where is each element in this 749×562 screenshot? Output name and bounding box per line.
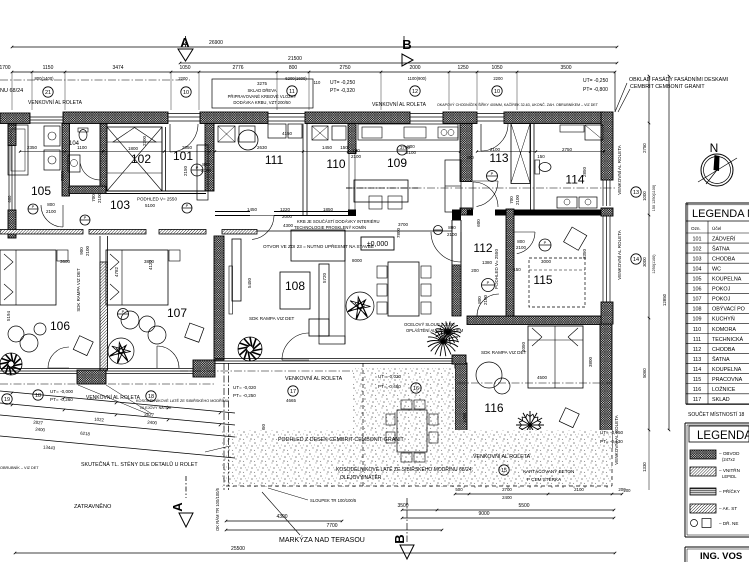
axis circles top [43,87,53,97]
svg-text:15: 15 [501,468,507,474]
svg-text:OBKLAD FASÁDY FASÁDNÍMI DESKAM: OBKLAD FASÁDY FASÁDNÍMI DESKAMI [629,76,728,83]
svg-text:KUCHYŇ: KUCHYŇ [712,316,735,323]
swatch drevo [691,520,698,527]
wall 105/104 [62,124,70,197]
kitchen counter 109 [358,124,458,140]
svg-text:7800: 7800 [396,227,401,238]
svg-text:3800: 3800 [588,356,593,367]
legend table rooms [685,203,687,404]
svg-text:200: 200 [466,155,474,160]
svg-text:10: 10 [494,89,500,95]
wall 109/113 [460,124,472,182]
speckle terrace concrete [353,368,455,430]
svg-text:14: 14 [633,257,639,263]
corridor walls [106,190,206,192]
svg-text:P: P [487,280,490,285]
svg-text:N: N [710,141,719,155]
svg-text:SKLAD: SKLAD [712,397,730,403]
svg-text:1050: 1050 [179,65,190,71]
svg-text:101: 101 [693,236,702,242]
svg-text:1150: 1150 [43,65,54,71]
svg-text:5194: 5194 [6,310,11,321]
svg-text:SOUČET MÍSTNOSTÍ 18: SOUČET MÍSTNOSTÍ 18 [688,411,745,418]
svg-text:5100: 5100 [145,203,156,208]
svg-text:3500: 3500 [560,65,571,71]
top wall seg4 [443,112,477,124]
svg-text:±0,000: ±0,000 [367,241,388,248]
svg-text:SLOUPEK TR 100/100/5: SLOUPEK TR 100/100/5 [310,498,357,503]
svg-text:PT= -0,800: PT= -0,800 [583,87,608,93]
svg-text:1700: 1700 [0,65,11,71]
svg-text:KOUPELNA: KOUPELNA [712,277,742,283]
svg-text:2750: 2750 [339,65,350,71]
svg-text:700: 700 [91,194,96,202]
bottom dims terrace [226,520,342,522]
svg-text:1050: 1050 [491,65,502,71]
nightstands [57,250,68,261]
shower 114 [560,125,584,132]
svg-text:4782: 4782 [114,266,119,277]
svg-text:150: 150 [340,145,348,150]
svg-text:VENKOVNÍ AL ROLETA: VENKOVNÍ AL ROLETA [285,375,343,382]
washer dryer 111 [218,126,235,142]
svg-text:12850: 12850 [662,293,667,306]
svg-text:108: 108 [693,307,702,313]
svg-text:SDK RAMPA VIZ DET: SDK RAMPA VIZ DET [481,350,527,355]
svg-text:UT= -0,020: UT= -0,020 [233,385,257,390]
svg-text:16: 16 [413,386,419,392]
svg-text:1300: 1300 [462,412,467,423]
svg-text:900: 900 [79,247,84,255]
svg-text:9000: 9000 [478,511,489,517]
svg-text:2000: 2000 [282,214,293,219]
svg-text:ZÁDVEŘÍ: ZÁDVEŘÍ [712,234,736,242]
svg-text:10: 10 [183,90,189,96]
svg-text:800: 800 [47,202,55,207]
cross symbols [487,171,498,182]
svg-text:1800: 1800 [128,146,139,151]
svg-text:104: 104 [693,266,702,272]
boiler circle 111 [238,130,258,150]
entrance door 101 [168,113,200,115]
svg-text:UT= -0,250: UT= -0,250 [330,80,355,86]
svg-text:2400: 2400 [35,427,46,433]
svg-text:2100: 2100 [515,194,520,205]
svg-text:POKOJ: POKOJ [712,297,731,303]
armchairs [73,336,93,356]
svg-text:2827: 2827 [144,412,155,418]
svg-text:OTVOR VE ZDI 23 = NUTNO UPŘE: OTVOR VE ZDI 23 = NUTNO UPŘESNIT NA STAV… [263,242,374,249]
svg-text:800: 800 [202,162,210,167]
plants and trees [238,337,262,361]
middle rooms walls [302,124,304,216]
svg-text:1450: 1450 [247,207,258,212]
svg-text:2000: 2000 [409,65,420,71]
shelving 110 [312,126,328,140]
spine wall lower [214,236,224,360]
svg-text:2100: 2100 [483,294,488,305]
svg-text:A: A [170,502,185,512]
svg-text:800: 800 [407,144,415,149]
svg-text:700: 700 [352,148,360,153]
svg-text:2350: 2350 [27,145,38,150]
svg-text:109: 109 [693,317,702,323]
shower 114b [585,125,603,140]
svg-text:3600: 3600 [60,259,71,264]
svg-text:CEMBRIT CEMBONIT GRANIT: CEMBRIT CEMBONIT GRANIT [630,84,705,90]
south wall 116 [469,437,548,439]
svg-text:4300: 4300 [283,223,294,228]
svg-text:ŠATNA: ŠATNA [712,245,730,252]
svg-text:3474: 3474 [112,65,123,71]
svg-text:OBRUBNÍK – VIZ DET: OBRUBNÍK – VIZ DET [0,466,39,470]
svg-text:110: 110 [314,80,321,85]
svg-text:2200: 2200 [493,76,503,81]
svg-text:117: 117 [693,397,702,403]
svg-text:P: P [122,309,125,314]
wall 112 left [452,210,461,221]
top wall seg2b [200,112,268,124]
svg-text:OKAPOVÝ CHODNÍČEK ŠÍŘKY 400MM,: OKAPOVÝ CHODNÍČEK ŠÍŘKY 400MM, KAČÍREK 3… [437,102,599,107]
svg-text:OCELOVÝ SLOUP Z 2U80: OCELOVÝ SLOUP Z 2U80 [404,322,455,327]
svg-text:– AK. ST: – AK. ST [719,506,737,511]
svg-text:PT= -0,320: PT= -0,320 [330,88,355,94]
left wall upper [8,124,16,146]
svg-text:113: 113 [693,357,702,363]
svg-text:2776: 2776 [232,65,243,71]
svg-text:– VNITŘN: – VNITŘN [719,466,740,473]
svg-text:200: 200 [624,488,632,493]
svg-text:UT= -0,250: UT= -0,250 [583,78,608,84]
svg-text:3350: 3350 [582,248,587,259]
svg-text:1250: 1250 [457,65,468,71]
svg-text:600: 600 [476,219,481,227]
svg-text:ZATRAVNĚNO: ZATRAVNĚNO [74,502,112,510]
svg-text:LEGENDA M: LEGENDA M [692,208,749,220]
svg-text:108: 108 [285,279,305,293]
tub circles 116 [476,362,502,388]
svg-text:TECHNOLOGIE PROSKLENÝ KOMÍN: TECHNOLOGIE PROSKLENÝ KOMÍN [294,225,366,230]
svg-text:5450: 5450 [247,277,252,288]
svg-text:DODÁVKA KRBU, VZT 200/50: DODÁVKA KRBU, VZT 200/50 [233,100,291,105]
svg-text:OPLÁŠTĚNÍ ALUCOBONDEM: OPLÁŠTĚNÍ ALUCOBONDEM [406,328,464,333]
svg-text:150 1250(1100): 150 1250(1100) [652,184,656,211]
svg-text:VENKOVNÍ AL ROLETA: VENKOVNÍ AL ROLETA [613,414,619,464]
svg-text:2700: 2700 [502,487,512,492]
bed 116 [528,326,583,388]
overall bottom dim [15,552,615,554]
doors [41,205,63,227]
svg-text:2100: 2100 [490,147,501,152]
entry door 113 [477,113,504,115]
svg-text:106: 106 [50,319,70,333]
svg-text:WC: WC [712,266,721,272]
dining table [388,262,419,316]
svg-text:P: P [491,171,494,176]
sinks 114 [557,197,577,208]
svg-text:3700: 3700 [398,222,409,227]
svg-text:4665: 4665 [286,398,297,403]
svg-text:VENKOVNÍ AL ROLETA: VENKOVNÍ AL ROLETA [473,453,531,460]
axis dashdot lines [0,79,190,81]
svg-text:3275: 3275 [257,81,268,86]
wall below 113/114 [467,210,473,216]
svg-text:LEPIDL: LEPIDL [722,474,737,479]
svg-text:17: 17 [290,389,296,395]
svg-text:2100: 2100 [97,192,102,203]
svg-text:P: P [32,204,35,209]
terrace boundary dashdot [223,363,225,490]
svg-text:2400: 2400 [502,495,512,500]
svg-text:2100: 2100 [574,487,584,492]
room 105 vanity [44,126,60,146]
svg-text:OBÝVACÍ PO: OBÝVACÍ PO [712,306,745,313]
svg-text:2150: 2150 [183,165,188,176]
svg-text:5500: 5500 [518,503,529,509]
sofa 108 [319,264,329,336]
svg-text:1100: 1100 [77,145,87,150]
svg-text:106: 106 [693,287,702,293]
wall above 116 [467,316,606,325]
svg-text:600: 600 [7,195,12,203]
markyza leader [262,492,300,535]
svg-text:116: 116 [484,401,503,415]
svg-text:4150: 4150 [282,131,293,136]
svg-text:2100: 2100 [85,245,90,256]
svg-text:– OBVOD: – OBVOD [719,451,740,456]
dims under 116 [455,493,622,495]
svg-text:113: 113 [489,151,508,165]
svg-text:21: 21 [45,90,51,96]
bed 115 dashed [529,258,585,307]
svg-text:PRACOVNA: PRACOVNA [712,377,743,383]
pier 107/108 [193,360,215,377]
svg-text:150: 150 [537,154,545,159]
section marker A bottom [185,476,187,498]
svg-text:CHODBA: CHODBA [712,256,735,262]
svg-text:2100: 2100 [516,245,527,250]
wall 104/102 [100,124,107,192]
svg-text:(247x2: (247x2 [722,457,735,462]
svg-text:105: 105 [31,184,51,198]
spine wall upper [205,124,214,192]
svg-text:SKLAD DŘEVA: SKLAD DŘEVA [247,88,276,93]
svg-text:PŘIPRAVOVANÉ KRBOVÉ VLOŽKY: PŘIPRAVOVANÉ KRBOVÉ VLOŽKY [228,94,297,99]
level marker [361,237,394,250]
svg-text:105: 105 [693,277,702,283]
svg-text:110: 110 [693,327,702,333]
svg-text:PODHLED V= 2550: PODHLED V= 2550 [494,249,499,289]
svg-text:21500: 21500 [288,56,302,62]
svg-text:ŠATNA: ŠATNA [712,356,730,363]
svg-text:MARKÝZA NAD TERASOU: MARKÝZA NAD TERASOU [279,535,365,544]
svg-text:109: 109 [387,156,407,170]
svg-text:5720: 5720 [322,272,327,283]
svg-text:KOUPELNA: KOUPELNA [712,367,742,373]
svg-text:115: 115 [693,377,702,383]
svg-text:102: 102 [131,152,151,166]
kitchen island [354,180,408,202]
svg-text:KOSODÉLNÍKOVÉ LATĚ ZE SIBIŘSKÉ: KOSODÉLNÍKOVÉ LATĚ ZE SIBIŘSKÉHO MODŘÍNU [136,398,229,403]
svg-text:KOSODÉLNÍKOVÉ LATĚ ZE SIBIŘSKÉ: KOSODÉLNÍKOVÉ LATĚ ZE SIBIŘSKÉHO MODŘÍNU… [336,465,473,473]
east wall mid2 [601,302,613,324]
svg-text:1850: 1850 [323,207,334,212]
east wall upper [601,112,613,180]
svg-text:2630: 2630 [257,145,268,150]
svg-text:7700: 7700 [326,523,337,529]
svg-text:800: 800 [448,225,456,230]
title block [684,547,686,562]
east wall mid [601,208,613,216]
svg-text:B: B [392,534,407,543]
south wall 116 hatched [548,437,612,447]
svg-text:LEGENDA: LEGENDA [697,430,749,442]
svg-text:P: P [196,165,199,170]
sklad dreva note box [212,79,313,108]
svg-text:116: 116 [693,387,702,393]
wardrobe 102 with X [107,127,162,191]
svg-text:800: 800 [477,296,482,304]
toilet 104 [79,130,87,141]
entry closet 101 [197,145,208,200]
svg-text:150: 150 [513,267,521,272]
svg-text:6218: 6218 [80,431,91,437]
svg-text:P CEM STĚRKA: P CEM STĚRKA [527,475,562,482]
svg-text:2300: 2300 [142,135,147,146]
svg-text:2050: 2050 [182,145,193,150]
top wall seg3 [305,112,410,124]
svg-text:25500: 25500 [231,546,245,552]
pier 106/107 [77,370,106,384]
top wall seg2a [63,112,168,124]
west wall 116 [455,363,467,448]
svg-text:26900: 26900 [209,40,223,46]
svg-text:8000: 8000 [352,258,363,263]
svg-text:OLEJOVÝ NÁTĚR: OLEJOVÝ NÁTĚR [340,473,382,481]
kitchen tall cabinets [445,160,461,212]
svg-text:3550: 3550 [60,170,65,181]
svg-text:1000: 1000 [642,191,647,201]
svg-text:Účel: Účel [712,225,721,231]
svg-text:3000: 3000 [642,257,647,267]
svg-text:110: 110 [326,157,345,171]
wall 106/107 [99,236,101,370]
svg-text:VENKOVNÍ AL ROLETA: VENKOVNÍ AL ROLETA [28,99,83,106]
window top-left [30,116,63,118]
svg-text:P: P [544,240,547,245]
svg-text:101: 101 [173,149,193,163]
top wall seg5 [504,112,604,124]
svg-text:103: 103 [693,256,702,262]
svg-text:KARTÁČOVANÝ BETON: KARTÁČOVANÝ BETON [523,468,574,474]
svg-text:1450: 1450 [322,145,333,150]
svg-text:2827: 2827 [33,420,44,426]
corridor bottom wall [0,230,83,235]
svg-text:4300: 4300 [276,514,287,520]
svg-text:200: 200 [471,268,479,273]
wall 110/109 [348,124,356,154]
svg-text:13: 13 [633,190,639,196]
bottom-left diagonal dims [0,391,235,413]
svg-text:102: 102 [693,246,702,252]
svg-text:800: 800 [517,239,525,244]
toilet 114 [539,163,551,172]
svg-text:115: 115 [533,273,552,287]
roleta rail 108 [229,266,233,314]
svg-text:2850: 2850 [582,166,587,177]
svg-text:107: 107 [693,297,702,303]
wall 109/113 low [460,208,472,215]
svg-text:PODHLED V= 2550: PODHLED V= 2550 [137,197,177,202]
svg-text:P: P [186,203,189,208]
wall 112/115 [506,209,514,316]
svg-text:2400: 2400 [147,420,158,426]
svg-text:107: 107 [167,306,187,320]
svg-text:Ozn.: Ozn. [691,226,701,231]
svg-text:2100: 2100 [351,154,362,159]
swatch obvod [690,450,716,459]
svg-text:103: 103 [110,198,130,212]
svg-text:1100(900): 1100(900) [408,76,427,81]
svg-text:VENKOVNÍ AL ROLETA: VENKOVNÍ AL ROLETA [616,229,622,279]
svg-text:TECHNICKÁ: TECHNICKÁ [712,336,744,343]
svg-text:2100: 2100 [46,209,57,214]
window 109 [268,113,305,115]
svg-text:6200(1600): 6200(1600) [285,76,307,81]
sink 104 [68,155,80,172]
window 109b [410,113,443,115]
svg-text:12: 12 [412,89,418,95]
svg-text:4500: 4500 [537,375,548,380]
top dimension lines [12,46,617,48]
svg-text:3500: 3500 [397,503,408,509]
svg-text:19: 19 [4,397,10,403]
svg-text:PT= -0,480: PT= -0,480 [378,384,401,389]
svg-text:4122: 4122 [148,259,153,270]
right dimension lines [648,76,650,430]
svg-text:P: P [84,215,87,220]
left wall lower [8,210,16,238]
svg-text:ING. VOS: ING. VOS [700,551,742,562]
svg-text:800: 800 [289,65,298,71]
svg-text:SDK RAMPA VIZ DET: SDK RAMPA VIZ DET [249,316,295,321]
pier 108 east [452,355,466,364]
svg-text:1220: 1220 [280,207,291,212]
svg-text:112: 112 [473,241,492,255]
svg-text:PT= -0,130: PT= -0,130 [600,439,623,444]
wall 113/114 [530,124,532,210]
svg-text:111: 111 [265,153,284,167]
south glass wall 106/107 [0,368,206,370]
wardrobe 113 [511,124,530,184]
swatch vnitrni [690,467,716,476]
svg-text:SKUTEČNÁ TL. STĚNY DLE DETAILŮ: SKUTEČNÁ TL. STĚNY DLE DETAILŮ U ROLET [81,460,198,468]
svg-text:UT= -0,020: UT= -0,020 [378,374,402,379]
svg-text:3000: 3000 [541,259,552,264]
plant top 106 [121,311,139,329]
svg-text:1022: 1022 [94,417,105,423]
section marker B bottom [406,498,408,542]
svg-text:111: 111 [693,337,701,343]
top wall seg1 [0,113,30,124]
legend hatches box [684,423,686,537]
tech rect 111 [268,124,286,138]
east wall 116 [600,324,612,448]
svg-text:18: 18 [35,393,41,399]
svg-text:LOŽNICE: LOŽNICE [712,385,736,393]
svg-text:PODHLED Z DESEK CEMBRIT CEMBON: PODHLED Z DESEK CEMBRIT CEMBONIT GRANIT [278,437,405,443]
svg-text:2100: 2100 [406,150,417,155]
